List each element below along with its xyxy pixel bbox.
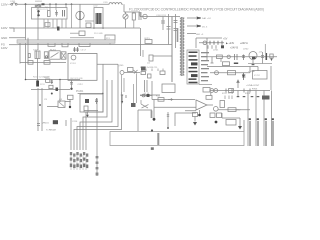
svg-text:IC702: IC702 — [254, 75, 261, 77]
svg-text:IC201: IC201 — [70, 63, 77, 65]
wire vertical x25.5 — [25, 4, 27, 63]
diode D206 — [197, 17, 200, 19]
capacitor C209 — [167, 14, 171, 45]
transformer T202 — [35, 51, 40, 59]
wire +24V B drop — [264, 44, 266, 53]
resistor R221 — [45, 23, 50, 27]
svg-text:Q702: Q702 — [243, 49, 249, 51]
resistor R220 — [86, 23, 91, 28]
svg-text:R210 C215 D205: R210 C215 D205 — [33, 77, 51, 79]
rectifier DB202 — [143, 14, 147, 18]
component — [84, 106, 88, 112]
test point chain — [96, 98, 98, 176]
wire — [70, 37, 94, 39]
diode D704 — [270, 54, 273, 58]
thermal fuse dark — [42, 3, 45, 5]
svg-text:F1.23XXXXPC30 DC CONTROLLER/DC: F1.23XXXXPC30 DC CONTROLLER/DC POWER SUP… — [129, 7, 264, 11]
wire y118 — [222, 113, 240, 118]
resistor R205 — [28, 61, 33, 65]
resistor R201 — [48, 11, 51, 17]
svg-text:C6 C7: C6 C7 — [81, 50, 88, 52]
wire primary feed — [171, 17, 173, 83]
svg-text:+5V: +5V — [223, 38, 228, 41]
wire main y79.5 — [26, 79, 81, 81]
svg-text:D5 .5: D5 .5 — [202, 27, 208, 29]
capacitor C702 — [242, 73, 246, 80]
ground bus bar — [17, 40, 115, 43]
capacitor C203 — [63, 10, 65, 17]
capacitor C204 electrolytic — [76, 11, 84, 19]
wire x172 — [171, 17, 173, 82]
svg-text:SB1 +5: SB1 +5 — [196, 34, 204, 36]
resistor R206 — [44, 61, 50, 65]
wire — [85, 20, 94, 22]
wire fg stub — [9, 44, 18, 46]
capacitor C214 — [44, 52, 48, 59]
wire filter bottom — [20, 62, 66, 64]
svg-text:C212: C212 — [78, 84, 84, 86]
diode D202 — [62, 42, 68, 47]
svg-text:DA1 +24: DA1 +24 — [202, 17, 211, 20]
svg-text:R705: R705 — [252, 89, 258, 91]
varistor Z202 — [79, 31, 85, 36]
svg-text:Tx RELAY: Tx RELAY — [46, 129, 57, 132]
junction dots top wire — [49, 3, 51, 5]
sub box — [175, 113, 196, 126]
svg-text:120V: 120V — [1, 26, 8, 30]
transistor Q203 boxes — [141, 67, 146, 71]
secondary taps — [187, 18, 196, 34]
fuse FU702 — [215, 71, 219, 75]
wire verticals x38 x42 — [38, 88, 42, 131]
choke L202 — [94, 8, 103, 29]
wire y110 — [84, 110, 98, 112]
transformer T201 core — [181, 17, 183, 76]
resistor R207 — [46, 79, 50, 82]
wire AC live — [10, 3, 109, 5]
bottom box CN704 — [110, 132, 244, 146]
wire left risers — [20, 38, 28, 64]
capacitor C703 — [235, 54, 238, 60]
junction dot — [25, 3, 27, 5]
svg-text:R215: R215 — [145, 38, 151, 40]
diode D703 — [227, 55, 230, 58]
switch SW201 — [35, 5, 37, 7]
thermistor TH201 — [123, 14, 128, 19]
resistor R215 — [145, 40, 152, 44]
svg-text:PC201: PC201 — [76, 90, 84, 93]
relay RL201 — [49, 51, 60, 59]
relay box RL202 — [105, 35, 115, 40]
svg-text:R717 C719: R717 C719 — [222, 93, 234, 95]
svg-text:C1 R1 C2 C3: C1 R1 C2 C3 — [36, 9, 49, 11]
wire vertical x38 lower — [37, 59, 39, 81]
regulator box — [253, 71, 268, 80]
capacitor C704 — [242, 55, 245, 61]
svg-text:SW201: SW201 — [35, 1, 43, 3]
wire vertical x140 — [140, 28, 142, 56]
opto PC202 — [71, 55, 76, 60]
svg-text:F201: F201 — [11, 1, 17, 3]
capacitor C207 dark — [57, 27, 60, 31]
node junction dots neutral rail — [93, 27, 95, 29]
op-amp feed rail — [140, 96, 195, 100]
diode D209 dark — [56, 88, 59, 92]
capacitor C210 — [174, 14, 178, 48]
transformer T201 secondary winding — [183, 18, 184, 75]
capacitor C208 — [161, 17, 165, 31]
line filter box — [32, 8, 68, 20]
svg-text:+24V A: +24V A — [240, 42, 248, 45]
+24V rail y73 — [207, 67, 258, 72]
diode D207 — [197, 25, 200, 27]
svg-text:+24VA CONT: +24VA CONT — [246, 84, 260, 87]
wire drops from filter box — [44, 19, 66, 28]
resistor R204 — [48, 43, 55, 47]
vertical net labels — [249, 118, 274, 146]
resistor R710 — [158, 98, 164, 102]
svg-text:ZD1 GND: ZD1 GND — [94, 33, 103, 35]
wire feedback — [138, 110, 152, 131]
transistor Q705 — [214, 107, 219, 112]
opto PC701 — [210, 89, 214, 93]
resistor R701 — [217, 55, 223, 59]
wire riser x60 — [59, 80, 61, 103]
diode bridge DB201 — [61, 52, 66, 59]
wire vertical x38 — [37, 4, 39, 50]
svg-text:120V~: 120V~ — [1, 3, 10, 7]
IC201 control box — [68, 54, 97, 81]
junction dot — [59, 79, 61, 81]
diode D710 — [142, 94, 145, 97]
svg-text:Q205: Q205 — [118, 65, 124, 67]
inductor L204 coil — [108, 3, 123, 5]
wire AC neutral rail — [10, 27, 140, 29]
wire IC out — [97, 64, 118, 92]
ground — [69, 106, 71, 108]
wire to transformer primary — [140, 16, 180, 18]
svg-text:GND: GND — [1, 36, 7, 40]
inductor L203 dark — [36, 81, 39, 87]
connector CN202 pins — [70, 152, 89, 168]
wire y89.5 — [31, 89, 70, 91]
transistor Q704 — [249, 52, 257, 60]
svg-text:+24V B: +24V B — [230, 47, 238, 50]
resistor R216 — [162, 84, 175, 93]
second row — [208, 45, 216, 49]
opto rail y90 — [237, 80, 239, 88]
svg-text:C208 R215: C208 R215 — [156, 15, 167, 17]
wire bus staircase to connector — [86, 64, 103, 150]
ground stubs — [211, 57, 254, 64]
wire stub — [9, 28, 14, 32]
resistor R702 — [228, 71, 236, 75]
svg-text:RL201: RL201 — [50, 49, 57, 51]
transformer T201 primary winding — [180, 18, 181, 75]
fuse F201 — [11, 3, 13, 5]
resistor R202 — [132, 13, 135, 20]
capacitor C202 — [55, 10, 58, 17]
capacitor C213 — [28, 54, 30, 58]
diode D702 — [242, 75, 245, 78]
wire out — [218, 109, 250, 111]
capacitor C211 — [51, 80, 54, 85]
wire y44 — [18, 44, 172, 46]
wire top right corner — [139, 12, 141, 17]
svg-text:▶ +24V: ▶ +24V — [226, 42, 235, 45]
capacitor C220 — [73, 47, 79, 52]
capacitor C206 — [139, 12, 141, 20]
svg-text:120V: 120V — [1, 46, 8, 50]
transistor Q202 — [80, 94, 103, 112]
capacitor C201 — [38, 10, 40, 17]
arrow — [168, 98, 173, 100]
+24 rail y42.8 — [199, 42, 224, 44]
svg-text:VR201: VR201 — [42, 123, 49, 125]
svg-text:Q701: Q701 — [213, 50, 219, 52]
capacitor C705 — [261, 52, 264, 64]
component cluster x52-68 — [58, 101, 65, 108]
transistor Q206 cluster — [128, 68, 134, 72]
wire gnd stub — [9, 37, 26, 39]
shield box — [196, 38, 222, 60]
pin list block CN203 — [187, 50, 199, 84]
ground arrow — [121, 95, 123, 101]
op-amp U701 — [196, 100, 207, 110]
capacitor C706 dark — [266, 53, 268, 60]
svg-text:R718: R718 — [245, 93, 251, 95]
svg-text:C216: C216 — [72, 121, 78, 123]
resistor R208b — [49, 85, 53, 88]
+5V regulator rail — [207, 56, 277, 58]
resistor R209 — [68, 95, 74, 99]
right bus wires down — [243, 120, 245, 132]
ground dot below op-amp — [199, 110, 201, 114]
diode pair marks — [141, 100, 149, 108]
resistor R214 — [79, 42, 90, 46]
wire left vertical — [25, 64, 27, 80]
capacitor C212 — [70, 80, 73, 88]
